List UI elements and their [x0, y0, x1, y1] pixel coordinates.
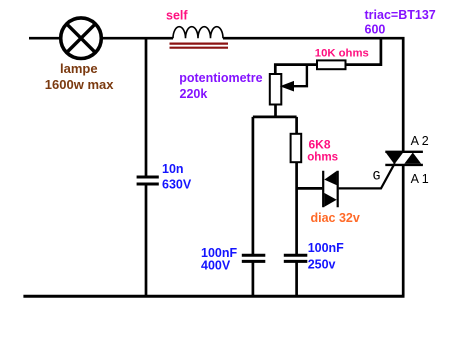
- svg-text:potentiometre: potentiometre: [179, 71, 262, 85]
- wire gate node to diac: [297, 187, 323, 190]
- bottom wire (neutral): [23, 295, 404, 298]
- svg-text:G: G: [373, 168, 381, 183]
- svg-text:10n: 10n: [162, 162, 184, 176]
- lamp LA1 (circle with X): [61, 18, 102, 59]
- label 10n 630V: [162, 162, 192, 191]
- wire 10n capacitor to bottom wire: [145, 185, 148, 297]
- svg-text:diac 32v: diac 32v: [311, 211, 360, 225]
- wire lamp to inductor: [101, 37, 173, 40]
- wire pot bottom to RC junction: [274, 105, 277, 117]
- svg-text:triac=BT137: triac=BT137: [365, 8, 436, 22]
- capacitor C1 10n 630V: [137, 177, 159, 184]
- wire triac A1 down to bottom wire: [402, 166, 405, 296]
- svg-text:self: self: [166, 9, 188, 23]
- svg-text:A 2: A 2: [411, 134, 429, 148]
- resistor R2 6K8: [291, 134, 302, 162]
- svg-text:1600w max: 1600w max: [45, 77, 114, 92]
- capacitor C2 100nF 400V: [242, 255, 265, 261]
- svg-text:220k: 220k: [180, 87, 208, 101]
- svg-text:250v: 250v: [308, 258, 336, 272]
- wire 6K8 resistor down through gate node to 100nF 250v capacitor: [295, 162, 298, 254]
- wire 10K left end to potentiometer top node: [275, 65, 317, 74]
- resistor R1 10K: [317, 60, 346, 69]
- svg-text:lampe: lampe: [60, 61, 98, 76]
- wire 100nF 250v capacitor to bottom wire: [295, 262, 298, 296]
- wire 100nF 400V capacitor to bottom wire: [252, 262, 255, 296]
- wire inductor to top-right corner down to triac A2: [223, 38, 403, 151]
- svg-text:ohms: ohms: [307, 150, 338, 163]
- wire diac to gate diagonal: [339, 163, 395, 188]
- wire junction down to 6K8 resistor: [295, 117, 298, 134]
- label potentiometre 220k: [179, 71, 262, 101]
- label 100nF 250v: [308, 241, 344, 271]
- label lampe 1600w max: [45, 61, 114, 92]
- label 6K8 ohms: [307, 138, 338, 164]
- label triac=BT137 600: [365, 8, 436, 37]
- svg-text:10K ohms: 10K ohms: [315, 47, 369, 59]
- wire AC line left to lamp: [29, 37, 61, 40]
- capacitor C3 100nF 250v: [284, 255, 308, 261]
- svg-text:A 1: A 1: [411, 172, 429, 186]
- wire junction down to 100nF 400V capacitor: [252, 117, 255, 255]
- wire stub from top wire down to 10K resistor right end: [346, 38, 381, 64]
- diac D1: [323, 171, 338, 208]
- inductor core lines: [170, 44, 229, 48]
- svg-text:600: 600: [365, 23, 386, 37]
- potentiometer P1 220k body: [270, 74, 282, 105]
- wire branch top wire down to 10n capacitor: [145, 38, 148, 176]
- label 100nF 400V: [201, 246, 237, 272]
- svg-text:400V: 400V: [201, 258, 231, 272]
- inductor self (4 humps): [173, 27, 223, 39]
- svg-text:100nF: 100nF: [308, 241, 344, 255]
- junction horizontal wire: [253, 116, 297, 119]
- triac U1 BT137: [385, 152, 423, 165]
- potentiometer wiper arrow and wire: [280, 65, 307, 92]
- svg-text:630V: 630V: [162, 177, 192, 191]
